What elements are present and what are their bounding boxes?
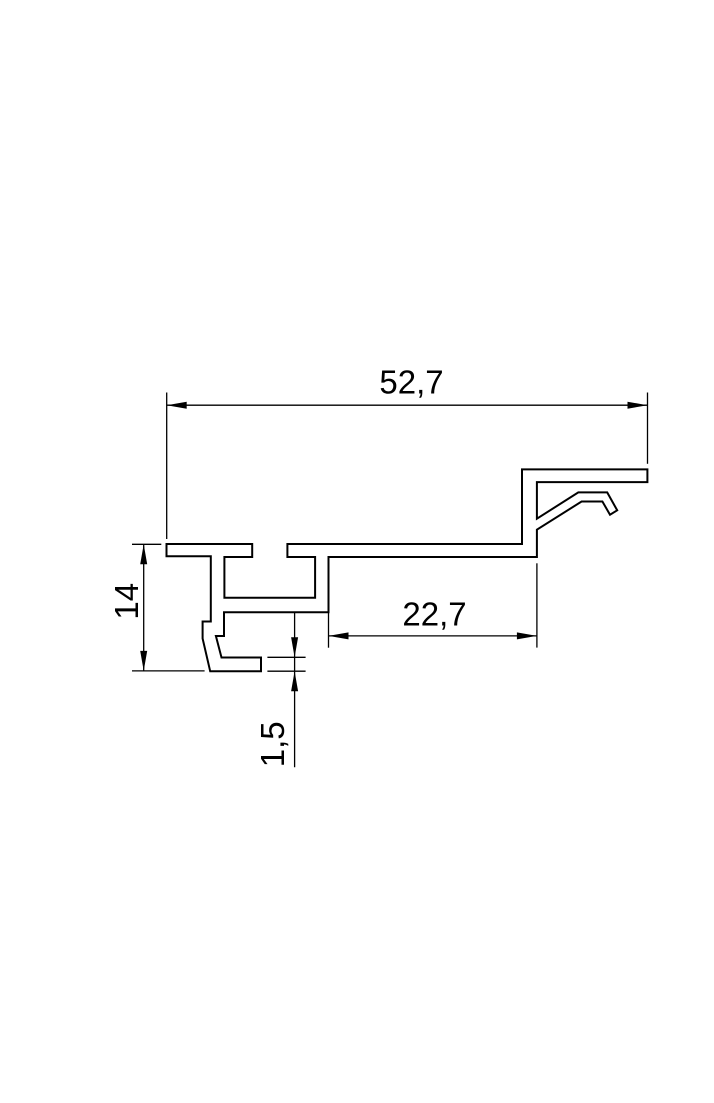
dimension 22,7 : left extension line	[328, 612, 330, 647]
dimension 1,5 : dimension line	[294, 612, 296, 767]
dimension 52,7 : left arrowhead	[167, 402, 187, 409]
dimension 22,7 : left arrowhead	[329, 632, 349, 639]
dimension 22,7 : right extension line	[536, 563, 538, 647]
svg-text:1,5: 1,5	[254, 721, 291, 767]
dimension 14 : top extension line	[132, 543, 161, 545]
dimension 1,5 : upper arrowhead (pointing down)	[291, 637, 298, 657]
dimension 52,7 : right extension line	[647, 393, 649, 464]
dimension 1,5 : upper extension line	[267, 656, 305, 658]
svg-text:22,7: 22,7	[402, 595, 466, 632]
dimension 52,7 : right arrowhead	[628, 402, 648, 409]
dimension 1,5 : lower arrowhead (pointing up)	[291, 671, 298, 691]
dimension 22,7 : dimension line	[329, 635, 537, 637]
dimension 52,7 : dimension line	[167, 404, 648, 406]
dimension 22,7 : right arrowhead	[517, 632, 537, 639]
profile outline	[167, 469, 648, 671]
dimension 14 : dimension line	[143, 544, 145, 671]
dimension 14 : top arrowhead	[140, 544, 147, 564]
dimension 52,7 : left extension line	[166, 393, 168, 540]
dimension 14 : bottom extension line	[132, 670, 205, 672]
dimension 1,5 : lower extension line	[267, 670, 305, 672]
svg-text:14: 14	[108, 583, 145, 620]
svg-text:52,7: 52,7	[379, 364, 443, 401]
dimension 14 : bottom arrowhead	[140, 651, 147, 671]
